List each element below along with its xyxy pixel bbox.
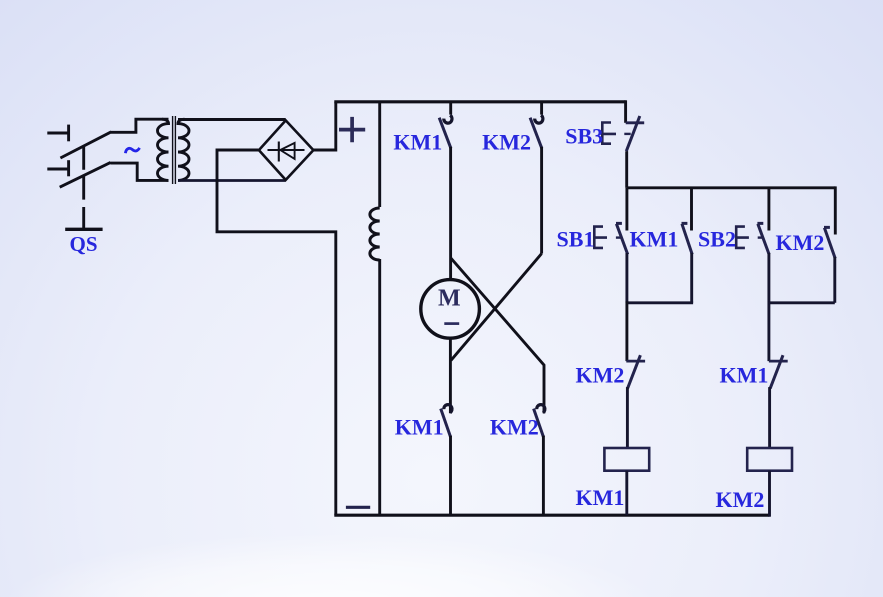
contact KM1 main bottom blade <box>441 409 451 438</box>
switch QS terminal 1 lead <box>47 132 68 135</box>
svg-text:KM2: KM2 <box>576 363 625 388</box>
contact KM1 main top blade <box>439 118 451 149</box>
wire bridge right corner up to plus rail <box>313 102 335 150</box>
inductor branch wire upper <box>378 102 381 207</box>
wire SB1 joint down to KM2 NC <box>625 301 628 361</box>
diagonal wire A from KM1 branch to KM2 coil-side bottom <box>451 258 544 413</box>
wire KM1 branch to motor <box>449 147 452 280</box>
button SB3 linkage tick <box>624 133 630 135</box>
wire KM2 NC to coil KM1 <box>626 387 629 448</box>
contact KM1 main top hook <box>444 115 452 123</box>
contact KM2 main bottom hook <box>537 405 545 413</box>
top rail <box>334 100 625 103</box>
svg-text:SB1: SB1 <box>557 227 595 252</box>
switch QS handle bar <box>65 228 102 231</box>
coil KM2 rectangle <box>747 448 792 471</box>
contact SB1 blade <box>616 223 628 254</box>
contact KM1 aux blade <box>682 223 693 254</box>
wire KM1 NC to coil KM2 <box>768 387 771 448</box>
diagonal wire B from KM2 branch to below motor <box>451 254 542 361</box>
contact SB2 blade <box>757 223 769 254</box>
switch QS terminal 1 tick <box>67 125 70 142</box>
plus symbol <box>339 117 365 142</box>
wire bridge left corner loop to negative rail <box>217 150 336 515</box>
contact KM1 main top terminal <box>449 102 452 115</box>
svg-text:SB2: SB2 <box>698 227 736 252</box>
bottom rail <box>334 514 769 517</box>
wire KM2 aux down to joint <box>833 257 836 303</box>
button SB3 seat tick <box>626 121 645 124</box>
contact SB1 top terminal <box>625 188 628 231</box>
bridge diode line <box>268 149 305 151</box>
contact KM2 main top terminal <box>540 102 543 115</box>
wire KM1 aux down to joint <box>690 253 693 303</box>
wire SB1 down to joint <box>625 253 628 303</box>
motor M circle <box>421 280 480 339</box>
joint SB1/KM1aux <box>626 301 694 304</box>
wire KM2 branch down <box>540 147 543 254</box>
wire SB2 down through joint to NC <box>767 253 770 361</box>
wire QS blade2 to transformer primary bottom <box>110 163 168 180</box>
contact SB2 top terminal <box>767 188 770 231</box>
bridge rectifier VC diamond <box>259 120 314 179</box>
bridge diode cathode bar <box>278 142 280 162</box>
svg-text:KM2: KM2 <box>490 415 539 440</box>
wire SB3 to control rail <box>625 151 628 188</box>
contact KM2 main top hook <box>535 115 543 123</box>
wire KM1 bottom to rail <box>449 436 452 516</box>
button SB3 top terminal <box>624 100 627 123</box>
wire QS blade1 to transformer primary top <box>111 119 169 132</box>
contact KM2 NC blade <box>628 355 641 388</box>
svg-text:KM1: KM1 <box>393 130 442 155</box>
svg-text:KM1: KM1 <box>630 227 679 252</box>
svg-text:QS: QS <box>69 232 97 256</box>
contact KM2 main bottom blade <box>534 409 544 438</box>
contact KM1 aux terminal <box>690 188 693 231</box>
button SB2 linkage tick <box>758 236 764 238</box>
control rail <box>627 186 836 189</box>
button SB3 blade <box>626 116 640 151</box>
switch QS linkage dashed <box>82 147 85 230</box>
contact KM1 main bottom hook <box>444 405 452 413</box>
contact KM1 NC seat <box>769 360 788 363</box>
svg-text:KM2: KM2 <box>716 487 765 512</box>
wire secondary bottom to bridge <box>178 179 286 182</box>
coil KM1 rectangle <box>604 448 649 471</box>
button SB3 actuator E <box>601 121 616 145</box>
minus symbol <box>346 506 370 509</box>
wire secondary top to bridge <box>178 118 286 121</box>
label AC tilde <box>125 148 139 153</box>
contact KM2 aux corner terminal <box>834 186 837 234</box>
inductor branch wire lower <box>378 259 381 515</box>
svg-text:KM2: KM2 <box>482 130 531 155</box>
transformer T primary winding <box>158 119 169 180</box>
contact KM2 NC seat <box>626 360 645 363</box>
contact KM1 NC blade <box>770 355 783 388</box>
button SB1 linkage tick <box>616 236 622 238</box>
wire coil KM2 to bottom rail <box>768 471 771 517</box>
inductor L coil <box>370 208 380 260</box>
switch QS blade 1 <box>60 132 111 158</box>
svg-text:KM2: KM2 <box>776 230 825 255</box>
svg-text:M: M <box>438 286 461 312</box>
wire KM2 bottom to rail <box>542 436 545 516</box>
button SB2 actuator E <box>735 225 749 249</box>
bridge diode triangle <box>280 143 294 159</box>
switch QS terminal 2 tick <box>67 160 70 176</box>
motor dash <box>444 322 459 325</box>
contact KM2 aux blade <box>824 227 835 258</box>
transformer core lines <box>173 116 176 184</box>
button SB1 actuator E <box>593 225 607 249</box>
joint SB2/KM2aux <box>768 301 835 304</box>
svg-text:KM1: KM1 <box>576 485 625 510</box>
svg-text:KM1: KM1 <box>395 415 444 440</box>
wire coil KM1 to bottom rail <box>625 471 628 516</box>
contact KM2 main top blade <box>530 118 542 149</box>
switch QS terminal 2 lead <box>47 168 68 171</box>
wire motor bottom to KM1 bottom contact <box>449 338 452 413</box>
svg-text:SB3: SB3 <box>565 124 603 149</box>
svg-text:KM1: KM1 <box>720 363 769 388</box>
switch QS blade 2 <box>60 162 111 187</box>
transformer T secondary winding <box>178 119 189 180</box>
